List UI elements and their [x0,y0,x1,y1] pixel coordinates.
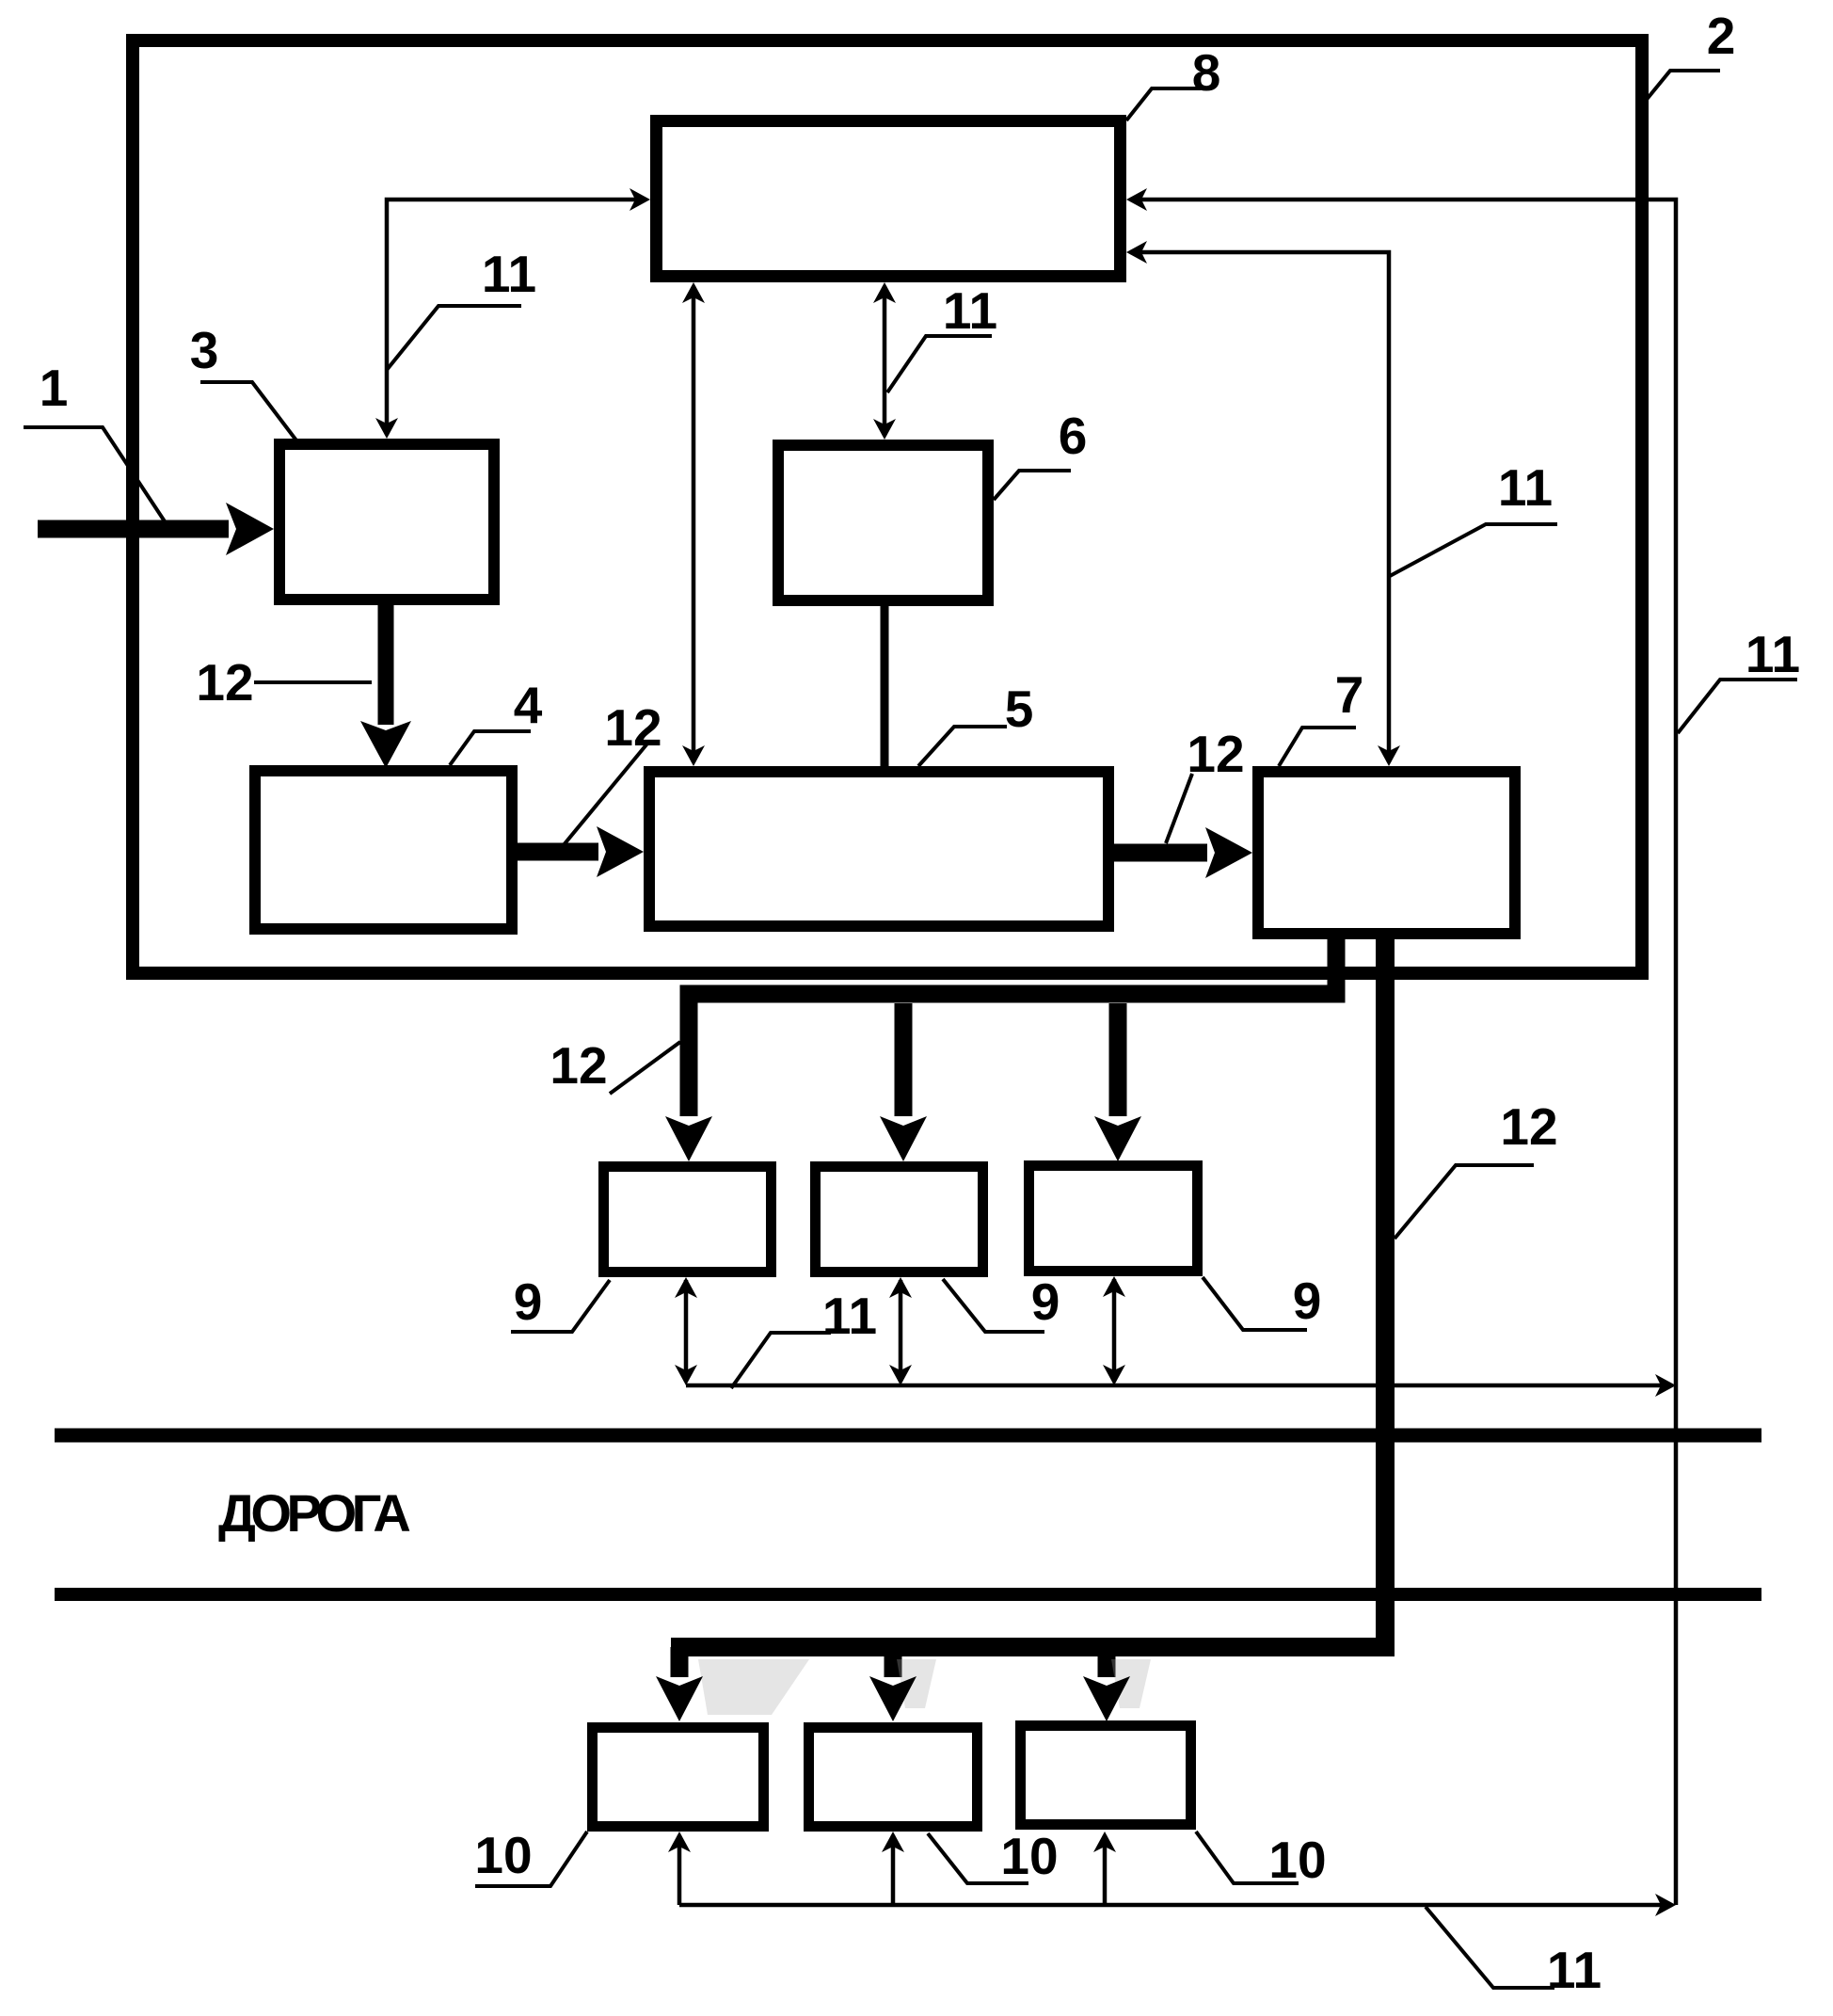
block 3 [279,444,494,600]
block 9 #3 [1029,1166,1198,1272]
leader 3 [200,382,296,440]
svg-text:9: 9 [1293,1272,1322,1330]
leader 12 #4 [610,1042,680,1094]
block 9 #2 [816,1167,983,1272]
svg-text:10: 10 [1268,1831,1326,1889]
thick arrow 12 block3 to block4 [378,603,394,725]
bus arrowhead into block 10 #1 [656,1676,703,1721]
svg-text:9: 9 [1031,1272,1060,1331]
svg-text:12: 12 [604,698,661,757]
thick bus 12 from block7 to blocks 10 [671,934,1385,1647]
bus arrowhead into block 10 #2 [869,1676,916,1721]
bus arrowhead into block 9 #3 [1094,1116,1141,1161]
wire 11 block8 right loop [1130,200,1676,1905]
block 10 #2 [809,1728,978,1827]
leader 12 #3 [1166,774,1192,843]
svg-text:12: 12 [550,1036,607,1095]
svg-text:11: 11 [1547,1941,1602,1999]
leader 11 #4 [1678,680,1797,733]
svg-text:1: 1 [40,359,69,417]
wire 11 under blocks 9 [686,1384,1671,1388]
bus arrowhead into block 9 #1 [665,1116,712,1161]
svg-text:5: 5 [1005,680,1034,738]
leader 11 #2 [887,336,992,392]
leader 10 #2 [928,1833,1028,1883]
leader 9 #2 [943,1279,1044,1332]
leader 11 #3 [1390,524,1557,576]
svg-text:11: 11 [1745,625,1800,683]
svg-text:11: 11 [482,245,536,303]
wire 11 under blocks 10 [679,1903,1671,1908]
leader 10 #1 [475,1832,587,1886]
svg-text:4: 4 [514,676,543,734]
block 5 [649,772,1108,926]
block 9 #1 [604,1167,772,1272]
wire 11 stub block9 #1 [684,1280,689,1382]
wire block6-block5 [881,606,889,766]
leader 11 #5 [731,1333,831,1388]
leader 4 [450,731,531,765]
svg-text:11: 11 [943,281,997,340]
svg-text:ДОРОГА: ДОРОГА [218,1483,409,1543]
leader 6 [994,471,1071,500]
svg-text:11: 11 [822,1287,877,1345]
wire 11 stub block9 #2 [899,1280,903,1382]
leader 7 [1279,728,1356,766]
leader 12 #5 [1395,1165,1534,1239]
svg-text:3: 3 [190,321,219,379]
svg-text:8: 8 [1192,43,1221,102]
block 7 [1258,772,1515,934]
leader 9 #1 [511,1280,610,1332]
block 6 [778,445,988,600]
leader 11 #1 [387,306,521,370]
block 8 [657,121,1121,277]
leader 9 #3 [1203,1277,1307,1330]
input arrow 1 (thick) [38,520,229,538]
scan smudge at block10 feed #3 [1111,1659,1151,1708]
wire 11 stub block10 #1 [677,1835,682,1905]
leader 2 [1645,71,1720,102]
scan smudge at block10 feed #2 [897,1659,936,1708]
bus arrowhead into block 9 #2 [880,1116,927,1161]
wire 11 stub block10 #3 [1103,1835,1108,1905]
leader 5 [918,727,1007,766]
svg-text:6: 6 [1059,407,1088,465]
wire 11 stub block9 #3 [1112,1279,1117,1382]
road upper edge line [55,1429,1761,1443]
svg-text:12: 12 [1500,1097,1557,1156]
svg-text:9: 9 [514,1272,543,1331]
thick arrow 12 block5 to block7 [1112,844,1207,862]
wire 11 block8-block7 [1130,252,1389,762]
wire 11 block8-block5 [692,286,696,762]
wire 11 block3-block8 [387,200,644,435]
block 10 #1 [593,1728,764,1827]
scan smudge at block10 feed #1 [698,1659,809,1715]
road lower edge line [55,1588,1761,1601]
svg-text:10: 10 [474,1826,532,1884]
leader 11 #6 [1426,1907,1554,1988]
leader 8 [1126,88,1201,120]
leader 12 #1 [254,680,372,684]
block 10 #3 [1021,1726,1191,1825]
thick arrow 12 block4 to block5 [516,843,598,861]
svg-text:2: 2 [1707,7,1736,65]
bus arrowhead into block 10 #3 [1083,1676,1130,1721]
svg-text:11: 11 [1498,458,1553,517]
svg-text:12: 12 [1187,725,1244,783]
wire 11 block8-block6 [883,286,887,436]
block 4 [255,771,512,929]
svg-text:10: 10 [1000,1827,1058,1885]
svg-text:7: 7 [1335,665,1364,724]
wire 11 stub block10 #2 [891,1835,896,1905]
leader 12 #2 [558,744,647,852]
block 2 (controller enclosure) [133,40,1642,973]
leader 1 [24,427,165,521]
svg-text:12: 12 [196,653,253,712]
leader 10 #3 [1196,1832,1299,1883]
thick bus 12 from block7 to blocks 9 [689,934,1336,1116]
